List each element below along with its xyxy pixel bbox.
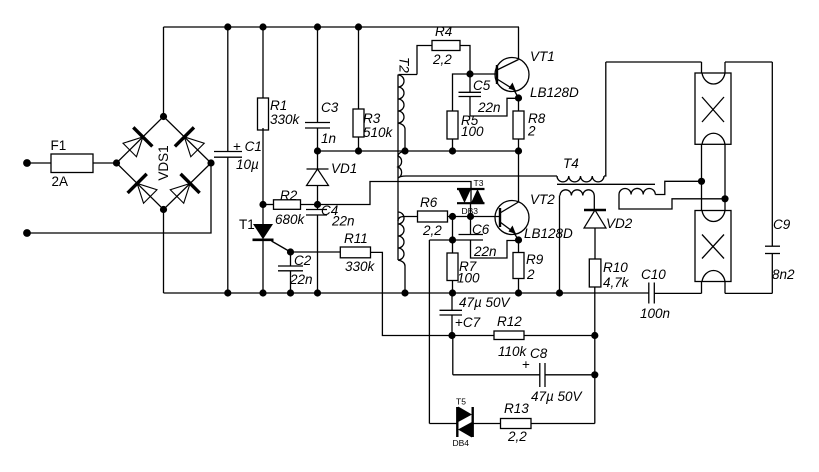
svg-text:VDS1: VDS1 bbox=[156, 145, 171, 180]
label VD2 bbox=[606, 216, 633, 231]
node junction C1/top bus bbox=[224, 23, 231, 30]
svg-text:R12: R12 bbox=[497, 314, 522, 329]
label T1 bbox=[239, 217, 255, 232]
node junction T2w1/wire151 bbox=[401, 147, 408, 154]
svg-text:R3: R3 bbox=[363, 111, 381, 126]
wire C4 node to T3 bbox=[318, 182, 472, 205]
label VT1 bbox=[530, 49, 555, 64]
label C4 bbox=[321, 203, 338, 218]
svg-text:2,2: 2,2 bbox=[422, 223, 442, 238]
label R8 bbox=[528, 111, 546, 126]
label LB128D VT1 bbox=[530, 85, 579, 100]
wire half-bridge midpoint row bbox=[318, 150, 519, 152]
label 2 R9 bbox=[526, 267, 535, 282]
label 110k bbox=[498, 344, 528, 359]
lamp EL1 top filament bbox=[702, 73, 725, 84]
svg-text:VT1: VT1 bbox=[530, 49, 555, 64]
lamp EL2 tube bbox=[695, 211, 731, 282]
lamp EL2 bottom filament bbox=[702, 270, 725, 281]
label VT2 bbox=[530, 192, 555, 207]
wire T5 branch vertical bbox=[429, 240, 457, 424]
label C5 bbox=[473, 78, 491, 93]
resistor R9 bbox=[513, 240, 524, 293]
node junction lamp right pin bbox=[721, 195, 728, 202]
capacitor C6 bbox=[456, 217, 519, 259]
svg-text:R1: R1 bbox=[270, 98, 287, 113]
diode VD1 bbox=[307, 151, 329, 205]
label 22n C4 bbox=[331, 214, 355, 229]
label 4,7k bbox=[603, 275, 630, 290]
capacitor C5 bbox=[459, 74, 519, 116]
label C10 bbox=[641, 267, 666, 282]
capacitor C4 bbox=[306, 205, 327, 294]
thyristor T1 bbox=[253, 205, 291, 294]
wire top-left vertical to bridge bbox=[163, 27, 165, 117]
label R3 bbox=[363, 111, 381, 126]
svg-text:C6: C6 bbox=[472, 222, 490, 237]
svg-text:47µ 50V: 47µ 50V bbox=[459, 295, 512, 310]
node bridge bottom corner bbox=[160, 206, 167, 213]
label C3 bbox=[321, 100, 339, 115]
label R6 bbox=[420, 195, 438, 210]
svg-text:100n: 100n bbox=[640, 306, 670, 321]
resistor R3 bbox=[353, 27, 364, 151]
label C8 bbox=[530, 346, 548, 361]
svg-text:VD1: VD1 bbox=[331, 161, 357, 176]
label R4 bbox=[435, 24, 452, 39]
wire to T5 branch corner bbox=[429, 239, 452, 241]
wire bridge diamond edges bbox=[117, 117, 212, 210]
label T5 bbox=[456, 397, 466, 407]
resistor R11 bbox=[291, 247, 453, 336]
svg-text:R6: R6 bbox=[420, 195, 438, 210]
inductor T2 winding 2 bbox=[398, 151, 406, 178]
svg-text:LB128D: LB128D bbox=[530, 85, 579, 100]
label + C8 bbox=[522, 357, 530, 372]
svg-text:R4: R4 bbox=[435, 24, 452, 39]
svg-text:T5: T5 bbox=[456, 397, 466, 407]
capacitor C9 bbox=[765, 62, 780, 293]
node junction T1/bottom bus bbox=[259, 289, 266, 296]
resistor R1 bbox=[258, 27, 269, 205]
lamp EL2 cross bbox=[702, 235, 724, 259]
svg-text:R11: R11 bbox=[344, 231, 368, 246]
node junction R3/top bus bbox=[355, 23, 362, 30]
label F1 bbox=[51, 138, 67, 153]
wire VT1 base bbox=[470, 73, 497, 75]
label LB128D VT2 bbox=[524, 226, 573, 241]
label 2 R8 bbox=[527, 124, 536, 139]
svg-text:22n: 22n bbox=[289, 272, 313, 287]
lamp EL1 bottom filament bbox=[702, 133, 725, 144]
resistor R2 bbox=[263, 200, 318, 210]
lamp EL1 cross bbox=[702, 97, 724, 122]
svg-text:22n: 22n bbox=[331, 214, 355, 229]
wire bottom supply bus bbox=[164, 292, 649, 294]
svg-text:C10: C10 bbox=[641, 267, 666, 282]
inductor T2 winding 1 bbox=[398, 75, 417, 152]
label R9 bbox=[526, 252, 544, 267]
label C9 bbox=[773, 217, 791, 232]
label R7 bbox=[459, 259, 477, 274]
node junction R12/R10 column bbox=[591, 332, 598, 339]
transistor VT1 bbox=[495, 27, 529, 98]
node junction R8/VT2 collector bbox=[515, 147, 522, 154]
label 2,2 R4 bbox=[432, 52, 452, 67]
resistor R4 bbox=[417, 41, 470, 75]
wire T2 to T4 primary bbox=[406, 175, 557, 177]
label C6 bbox=[472, 222, 490, 237]
wire bottom-left vertical from bridge bbox=[163, 210, 165, 294]
svg-text:C8: C8 bbox=[530, 346, 548, 361]
label 2,2 R6 bbox=[422, 223, 442, 238]
label R12 bbox=[497, 314, 522, 329]
diac T5 bbox=[457, 407, 500, 438]
svg-text:680k: 680k bbox=[275, 212, 306, 227]
label VDS1 bbox=[156, 145, 171, 180]
node input terminal 1 bbox=[23, 159, 31, 167]
label R13 bbox=[504, 401, 529, 416]
label +C1 bbox=[233, 139, 262, 154]
resistor R10 bbox=[589, 259, 601, 336]
svg-text:C2: C2 bbox=[294, 253, 312, 268]
node bridge left corner bbox=[113, 159, 120, 166]
wire between lamps right bbox=[724, 144, 726, 210]
node junction R5/wire151 bbox=[449, 147, 456, 154]
node junction T1 gate/C2/R11 bbox=[287, 248, 294, 255]
svg-text:4,7k: 4,7k bbox=[603, 275, 630, 290]
svg-text:100: 100 bbox=[461, 124, 484, 139]
label 10u bbox=[236, 157, 259, 172]
node junction VT1 emitter/R8/C5 bbox=[515, 94, 522, 101]
node junction C1/bottom bus bbox=[224, 289, 231, 296]
label C2 bbox=[294, 253, 312, 268]
label R1 bbox=[270, 98, 287, 113]
capacitor C1 bbox=[214, 27, 242, 293]
diode bridge bottom-right bbox=[170, 174, 199, 203]
svg-text:C9: C9 bbox=[773, 217, 791, 232]
svg-text:2A: 2A bbox=[52, 174, 69, 189]
wire R5 top link bbox=[453, 74, 471, 111]
svg-text:LB128D: LB128D bbox=[524, 226, 573, 241]
label R5 bbox=[461, 113, 479, 128]
label T2 bbox=[397, 57, 412, 73]
label 47u50V C8 bbox=[531, 389, 584, 404]
node junction R7 top/diac T5 branch bbox=[449, 236, 456, 243]
svg-text:R2: R2 bbox=[280, 188, 298, 203]
wire lamp bottom pins bbox=[702, 282, 773, 294]
node junction C3/VD1/wire151 bbox=[314, 147, 321, 154]
svg-text:2,2: 2,2 bbox=[507, 429, 527, 444]
node junction T4/bottom bus bbox=[556, 289, 563, 296]
resistor R8 bbox=[513, 98, 524, 151]
node junction C3/top bus bbox=[314, 23, 321, 30]
svg-text:2: 2 bbox=[527, 124, 536, 139]
node junction R1/R2/T1 bbox=[259, 201, 266, 208]
label DB4 bbox=[453, 438, 470, 448]
svg-text:100: 100 bbox=[457, 271, 480, 286]
wire top supply bus bbox=[164, 26, 520, 28]
label 510k bbox=[363, 125, 394, 140]
wire terminal1 to fuse bbox=[27, 162, 117, 164]
svg-text:C5: C5 bbox=[473, 78, 491, 93]
node junction C7/R11/R12/C8 bbox=[448, 332, 455, 339]
label DB3 bbox=[462, 206, 479, 216]
node input terminal 2 bbox=[23, 229, 31, 237]
label T4 bbox=[563, 156, 579, 171]
label 680k bbox=[275, 212, 306, 227]
capacitor C8 bbox=[453, 336, 595, 388]
svg-text:T1: T1 bbox=[239, 217, 255, 232]
node junction R3/wire151 bbox=[355, 147, 362, 154]
svg-text:DB4: DB4 bbox=[453, 438, 470, 448]
capacitor C10 bbox=[649, 283, 702, 304]
svg-text:+ C1: + C1 bbox=[233, 139, 262, 154]
label T3 bbox=[474, 178, 484, 188]
wire R13 right vertical bbox=[594, 375, 596, 424]
node junction T2/bottom bus bbox=[401, 289, 408, 296]
diac T3 bbox=[457, 189, 485, 217]
svg-text:F1: F1 bbox=[51, 138, 67, 153]
node junction C2/bottom bus bbox=[287, 289, 294, 296]
svg-text:VT2: VT2 bbox=[530, 192, 555, 207]
wire R10 column mid bbox=[594, 336, 596, 375]
node bridge right corner bbox=[207, 159, 214, 166]
capacitor C3 bbox=[305, 27, 330, 151]
svg-text:2,2: 2,2 bbox=[432, 52, 452, 67]
capacitor C2 bbox=[278, 252, 303, 293]
svg-text:T3: T3 bbox=[474, 178, 484, 188]
node junction R4/C5/VT1 base bbox=[466, 70, 473, 77]
label R10 bbox=[603, 260, 628, 275]
label 330k R11 bbox=[345, 259, 376, 274]
wire lamp top row bbox=[606, 62, 773, 73]
svg-text:C3: C3 bbox=[321, 100, 339, 115]
resistor R6 bbox=[418, 211, 453, 222]
svg-text:22n: 22n bbox=[473, 244, 497, 259]
label R11 bbox=[344, 231, 368, 246]
svg-text:T2: T2 bbox=[397, 57, 412, 73]
node junction R6/R7 bbox=[449, 213, 456, 220]
label 8n2 bbox=[772, 267, 795, 282]
transistor VT2 bbox=[495, 151, 529, 240]
svg-text:DB3: DB3 bbox=[462, 206, 479, 216]
label 47u50V C7 bbox=[459, 295, 512, 310]
label +C7 bbox=[455, 315, 481, 330]
label 2A bbox=[52, 174, 69, 189]
resistor R13 bbox=[501, 419, 595, 429]
core T4 bbox=[557, 183, 655, 185]
label 22n C5 bbox=[477, 100, 501, 115]
svg-text:+: + bbox=[522, 357, 530, 372]
diode bridge top-right bbox=[175, 127, 204, 156]
svg-text:10µ: 10µ bbox=[236, 157, 259, 172]
svg-text:47µ 50V: 47µ 50V bbox=[531, 389, 584, 404]
label 1n bbox=[321, 131, 336, 146]
lamp EL1 tube bbox=[695, 73, 731, 144]
svg-text:R10: R10 bbox=[603, 260, 628, 275]
svg-text:330k: 330k bbox=[345, 259, 376, 274]
svg-text:T4: T4 bbox=[563, 156, 579, 171]
node bridge top corner bbox=[160, 113, 167, 120]
node junction R9/bottom bus bbox=[515, 289, 522, 296]
capacitor C7 bbox=[440, 293, 463, 336]
svg-text:VD2: VD2 bbox=[606, 216, 633, 231]
diode bridge bottom-left bbox=[128, 174, 157, 203]
svg-text:2: 2 bbox=[526, 267, 535, 282]
wire T2 spine bbox=[397, 75, 399, 261]
diode VD2 bbox=[584, 210, 606, 259]
resistor R12 bbox=[452, 331, 595, 340]
wire terminal2 to bridge bbox=[27, 163, 211, 233]
wire R6 node to R7 bbox=[452, 217, 454, 241]
svg-text:510k: 510k bbox=[363, 125, 394, 140]
svg-text:8n2: 8n2 bbox=[772, 267, 795, 282]
label 100 R5 bbox=[461, 124, 484, 139]
wire between lamps left bbox=[701, 144, 703, 210]
label 330k bbox=[270, 112, 301, 127]
diode bridge top-left bbox=[123, 127, 152, 156]
resistor R7 bbox=[447, 240, 458, 293]
wire VT2 base row bbox=[453, 216, 501, 218]
label 2,2 R13 bbox=[507, 429, 527, 444]
node junction R1/top bus bbox=[259, 23, 266, 30]
label VD1 bbox=[331, 161, 357, 176]
svg-text:22n: 22n bbox=[477, 100, 501, 115]
svg-text:+C7: +C7 bbox=[455, 315, 481, 330]
label 22n C6 bbox=[473, 244, 497, 259]
svg-text:R13: R13 bbox=[504, 401, 529, 416]
svg-text:330k: 330k bbox=[270, 112, 301, 127]
resistor R5 bbox=[447, 111, 458, 151]
node junction lamp left pin bbox=[698, 178, 705, 185]
inductor T4 secondary A bbox=[560, 190, 595, 293]
lamp EL2 top filament bbox=[702, 211, 725, 222]
node junction T3/C6/VT2 base bbox=[467, 213, 474, 220]
fuse F1 bbox=[51, 154, 93, 173]
node junction R2/C4/VD1 bbox=[314, 201, 321, 208]
node junction VT2 emitter/R9/C6 bbox=[515, 236, 522, 243]
label 100n bbox=[640, 306, 670, 321]
label 22n C2 bbox=[289, 272, 313, 287]
inductor T4 secondary B bbox=[619, 181, 725, 209]
label 100 R7 bbox=[457, 271, 480, 286]
inductor T4 primary bbox=[557, 62, 606, 182]
node junction C4/bottom bus bbox=[314, 289, 321, 296]
svg-text:R9: R9 bbox=[526, 252, 544, 267]
node junction R7/bottom bus bbox=[449, 289, 456, 296]
node junction C8/R13 column bbox=[591, 371, 598, 378]
label R2 bbox=[280, 188, 298, 203]
inductor T2 winding 3 bbox=[398, 212, 418, 293]
svg-text:1n: 1n bbox=[321, 131, 336, 146]
